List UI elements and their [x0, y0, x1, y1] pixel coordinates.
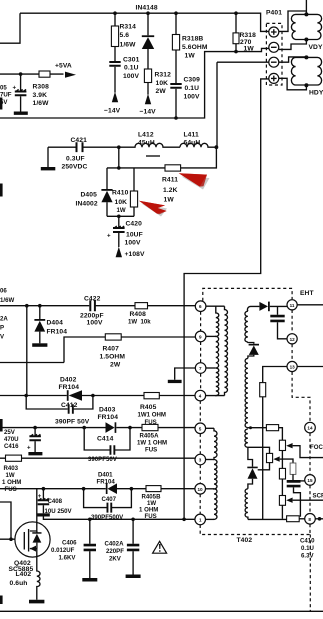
node R411 row / C420 column: [117, 166, 121, 170]
wire junction down to R411 row: [181, 147, 217, 168]
node C416: [33, 426, 37, 430]
svg-text:6.3V: 6.3V: [301, 553, 314, 560]
svg-text:0.3UF: 0.3UF: [66, 156, 85, 163]
resistor R308 3.9K 1/6W: [33, 71, 51, 107]
wire hot ground bus: [43, 517, 195, 520]
pin P401-4 (+): [269, 73, 279, 83]
svg-text:1W 1 OHM: 1W 1 OHM: [137, 440, 167, 447]
scan mark left edge 3: [0, 419, 3, 432]
svg-text:R411: R411: [162, 177, 178, 184]
diode secondary split upper: [248, 342, 259, 359]
pin 9: [195, 331, 206, 342]
node bus / C309: [174, 116, 178, 120]
node row/vertical drop: [25, 304, 29, 308]
wire chain pot3 to pin8 row: [281, 505, 283, 519]
svg-text:R403: R403: [4, 465, 19, 472]
svg-text:1.5OHM: 1.5OHM: [100, 354, 126, 361]
wire top bus: [20, 12, 236, 14]
node C407 left: [82, 487, 86, 491]
resistor R318 270 1W: [233, 13, 256, 52]
svg-text:05: 05: [0, 84, 7, 91]
wire HDY bottom to P401-4: [279, 78, 307, 90]
svg-text:5.6: 5.6: [120, 32, 130, 39]
svg-text:5: 5: [199, 426, 202, 431]
svg-text:P401: P401: [266, 10, 282, 17]
capacitor C420 10UF 100V: [107, 216, 143, 247]
wire pot2 bottom return: [258, 463, 270, 470]
wire divider top to chain: [279, 428, 283, 441]
ground D404: [32, 343, 47, 347]
svg-text:1W1 OHM: 1W1 OHM: [138, 412, 166, 419]
capacitor C422 2200pF 100V: [80, 296, 104, 327]
svg-text:−14V: −14V: [104, 108, 121, 115]
node C408: [42, 487, 46, 491]
svg-text:L411: L411: [184, 132, 199, 139]
transformer dashed pin chain right: [292, 310, 310, 611]
node top bus / R318B column: [174, 11, 178, 15]
red arrow pointing at R410: [139, 201, 167, 217]
svg-text:C414: C414: [97, 436, 114, 443]
svg-text:1W: 1W: [117, 207, 126, 214]
pin 15: [305, 475, 316, 486]
svg-text:10UF: 10UF: [126, 232, 143, 239]
wire C305 row: [0, 73, 64, 75]
resistor R408 1W 10k: [128, 303, 151, 326]
wire chain R to pot3: [281, 479, 283, 496]
svg-text:VDY: VDY: [309, 44, 323, 51]
svg-text:4: 4: [199, 394, 202, 399]
wire gate feed upper: [0, 502, 11, 539]
wire top-left vertical entry: [0, 13, 20, 43]
svg-text:2W: 2W: [110, 362, 121, 369]
resistor R405A 1W 1 OHM FUS: [137, 424, 167, 453]
pin 12: [287, 334, 297, 344]
svg-text:P: P: [0, 325, 4, 332]
svg-text:3: 3: [199, 458, 202, 463]
svg-text:FUS: FUS: [145, 447, 157, 454]
svg-text:06: 06: [0, 288, 7, 295]
svg-text:7: 7: [199, 366, 202, 371]
svg-text:R405A: R405A: [140, 433, 160, 440]
wire pin4 bottom winding bar: [206, 395, 225, 397]
diode D403 FR104: [98, 407, 119, 433]
ground pin7 branch: [168, 380, 182, 383]
svg-text:220PF: 220PF: [106, 548, 124, 555]
ground C416: [28, 452, 42, 455]
wire top bus to P401 pin1: [236, 13, 269, 31]
svg-text:100V: 100V: [125, 240, 141, 247]
svg-text:IN4002: IN4002: [76, 201, 98, 208]
capacitor C301 0.1U 100V: [109, 47, 139, 93]
wire main node down: [118, 147, 120, 168]
pin 7: [195, 363, 206, 374]
capacitor C309 0.1U 100V: [170, 50, 200, 118]
svg-text:C421: C421: [71, 137, 88, 144]
wire bus under top section: [0, 48, 269, 118]
svg-text:100V: 100V: [123, 73, 139, 80]
resistor R318B 5.6OHM 1W: [172, 13, 207, 59]
pin 6: [195, 301, 206, 312]
svg-text:250VDC: 250VDC: [62, 164, 88, 171]
node -14V arrow (R312 column): [140, 83, 157, 116]
secondary winding mid (EHT lower): [245, 311, 248, 342]
red arrow pointing at R411: [179, 173, 210, 189]
wire resistor to pin8: [299, 518, 305, 520]
svg-text:1W: 1W: [244, 46, 255, 53]
diode D401 FR104: [97, 471, 118, 494]
svg-text:10K: 10K: [115, 199, 128, 206]
svg-text:D405: D405: [81, 192, 98, 199]
wire pin6 top winding bar: [206, 305, 225, 307]
wire D402 row (to pin4): [0, 395, 195, 397]
wire D403 row (to pin5): [0, 427, 196, 429]
secondary winding bottom section: [245, 489, 248, 520]
svg-text:1: 1: [199, 517, 202, 522]
ground C408 (to hot bus): [37, 513, 49, 516]
svg-text:25V: 25V: [4, 429, 16, 436]
node C305: [19, 72, 23, 76]
capacitor C412 390PF 50V: [26, 396, 93, 426]
resistor R405 1W1 OHM FUS: [138, 393, 166, 427]
capacitor EHT filter: [270, 306, 284, 322]
svg-text:1.6KV: 1.6KV: [59, 555, 77, 562]
capacitor screen filter: [287, 480, 301, 517]
deflection yoke VDY: [291, 12, 323, 50]
svg-text:1.2K: 1.2K: [163, 187, 178, 194]
svg-text:1/6W: 1/6W: [33, 100, 50, 107]
wire vertical x217 down to L411 node: [216, 62, 218, 147]
svg-text:C406: C406: [62, 540, 77, 547]
secondary EHT winding top curl: [247, 306, 259, 311]
svg-text:2W: 2W: [156, 88, 167, 95]
node bus/P401-4 return: [182, 518, 186, 522]
svg-text:D403: D403: [99, 407, 116, 414]
svg-text:0.6uh: 0.6uh: [10, 580, 28, 587]
wire D401 row (to pin10): [0, 488, 195, 490]
svg-text:0.1U: 0.1U: [124, 65, 139, 72]
node R318 bottom: [234, 50, 238, 54]
pin 1: [195, 514, 206, 525]
primary winding upper outer (pin6 to pin4): [225, 306, 228, 395]
svg-text:1W 10k: 1W 10k: [128, 319, 151, 326]
svg-text:SCR: SCR: [313, 493, 323, 500]
svg-text:11: 11: [290, 303, 295, 308]
wire R403 row (to pin3): [0, 457, 195, 459]
svg-text:C412: C412: [61, 402, 78, 409]
inductor L412 45uH: [119, 132, 180, 157]
wire secondary bottom return bus: [248, 518, 287, 520]
capacitor C408 10U 250V: [38, 489, 73, 515]
svg-text:R410: R410: [112, 190, 129, 197]
capacitor C407 390PF500V: [84, 489, 132, 521]
svg-text:R407: R407: [103, 346, 120, 353]
scan mark left edge 4: [0, 596, 3, 605]
node D402 right: [91, 394, 95, 398]
svg-text:EHT: EHT: [300, 290, 314, 297]
svg-text:8: 8: [308, 517, 311, 522]
transformer dashed pin chain left: [199, 312, 201, 531]
node L411 / feed junction: [215, 145, 219, 149]
ground C406: [82, 578, 97, 582]
svg-text:C407: C407: [102, 496, 117, 503]
svg-text:FR104: FR104: [47, 329, 68, 336]
warning triangle: [153, 541, 167, 553]
svg-text:100V: 100V: [184, 94, 200, 101]
node C414 left: [82, 426, 86, 430]
svg-text:2200pF: 2200pF: [80, 313, 104, 320]
wire screen tap to pot2: [248, 447, 270, 453]
potentiometer screen (pot2): [267, 453, 283, 462]
wire R411 to R410/D405 node: [107, 167, 165, 169]
secondary winding screen section: [245, 429, 248, 447]
svg-text:R408: R408: [130, 311, 147, 318]
svg-text:5.6OHM: 5.6OHM: [182, 44, 208, 51]
capacitor C305 (electrolytic, label fragments at edge): [0, 74, 26, 111]
node loop bottom / C420: [117, 215, 121, 219]
primary winding lower (pins 5-3-10-1): [214, 428, 217, 519]
wire pin10 tap: [206, 488, 215, 490]
primary winding upper inner (pins 6-9-7-4): [216, 306, 219, 395]
wire Q402 drain to D401 row: [36, 489, 38, 531]
svg-text:3.9K: 3.9K: [33, 92, 48, 99]
wire R407 bottom leg to edge: [0, 362, 64, 364]
wire pin13 to edge: [297, 366, 323, 368]
svg-text:1W: 1W: [185, 53, 196, 60]
ground L402: [29, 600, 44, 604]
wire cap to pin15: [301, 480, 306, 482]
wire pin8 to edge: [315, 518, 323, 520]
resistor R407 1.5OHM 2W: [100, 334, 126, 369]
label C410 0.1U 6.3V: [300, 538, 315, 560]
node bus/C402A: [131, 518, 135, 522]
wire pin5 tap: [206, 427, 214, 429]
svg-text:13: 13: [290, 365, 296, 370]
svg-text:D402: D402: [60, 377, 77, 384]
svg-text:FOCU: FOCU: [310, 444, 323, 451]
diode D402 FR104: [59, 377, 83, 401]
capacitor C406 0.012UF 1.6KV: [51, 519, 96, 578]
transistor Q402 SC5885: [9, 522, 51, 578]
node bus/C406: [88, 518, 92, 522]
transformer dashed outline bottom: [200, 531, 310, 535]
resistor R312 10K 2W: [144, 69, 171, 95]
node +108V arrow: [116, 247, 145, 258]
ground C305: [14, 112, 28, 115]
svg-text:R308: R308: [33, 83, 50, 90]
svg-text:HDY: HDY: [309, 90, 323, 97]
wire VDY top stub to image edge: [305, 0, 307, 14]
inductor L402 0.6uh: [10, 557, 41, 600]
svg-text:390PF50V: 390PF50V: [88, 456, 118, 463]
potentiometer screen-out (pot3): [279, 496, 323, 506]
potentiometer focus (pot1): [279, 440, 323, 457]
wire pin12 to EHT cap: [278, 322, 288, 339]
svg-text:0.1U: 0.1U: [185, 85, 200, 92]
capacitor C421 0.3UF 250VDC: [48, 137, 119, 171]
svg-text:R312: R312: [155, 72, 172, 79]
svg-text:1/6W: 1/6W: [120, 42, 137, 49]
resistor R410 10K 1W: [112, 168, 138, 216]
wire vertical feed to D402 row: [26, 306, 28, 396]
wire P401-4 long run to transformer frame: [184, 79, 269, 519]
svg-text:390PF 50V: 390PF 50V: [55, 419, 90, 426]
node focus tap: [249, 426, 252, 429]
svg-text:C422: C422: [84, 296, 101, 303]
wire P401-3 to HDY top: [279, 57, 307, 62]
pin 3: [195, 454, 206, 465]
svg-text:C416: C416: [4, 443, 19, 450]
pin 11: [287, 300, 297, 310]
diode IN4148: [136, 5, 158, 70]
wire EHT diode to pin11: [270, 305, 287, 307]
svg-text:+: +: [38, 493, 42, 500]
svg-text:R405: R405: [140, 404, 157, 411]
svg-text:+: +: [13, 85, 17, 92]
node top bus / R318 column: [234, 11, 238, 15]
node top bus / R314 column: [113, 11, 117, 15]
wire P401-1 to VDY top: [279, 11, 307, 31]
wire pin11 to edge: [297, 304, 323, 306]
svg-text:1/6W: 1/6W: [0, 297, 14, 304]
svg-text:12: 12: [290, 337, 296, 342]
ground C421: [41, 167, 56, 170]
svg-text:C402A: C402A: [105, 541, 125, 548]
diode D405 IN4002: [76, 168, 113, 216]
wire row B+ (C422/R408 to pin6): [0, 305, 196, 307]
connector P401 dashed outline: [266, 10, 282, 86]
svg-text:R314: R314: [120, 24, 137, 31]
svg-text:100V: 100V: [87, 320, 103, 327]
pin 8: [305, 514, 316, 525]
node D402 left: [24, 394, 28, 398]
resistor R314 5.6 1/6W: [111, 13, 136, 48]
wire R407 row to pin9: [64, 337, 196, 363]
svg-text:FR104: FR104: [59, 384, 80, 391]
svg-text:T402: T402: [237, 537, 253, 544]
svg-text:+: +: [107, 233, 111, 240]
svg-text:1 OHM: 1 OHM: [2, 479, 21, 486]
scan mark left edge 1: [0, 98, 2, 110]
ground C402A: [126, 575, 141, 579]
svg-text:0.1U: 0.1U: [301, 545, 314, 552]
svg-text:+5VA: +5VA: [55, 63, 72, 70]
svg-text:FR104: FR104: [98, 414, 119, 421]
capacitor C402A 220PF 2KV: [105, 519, 140, 574]
svg-text:6: 6: [199, 304, 202, 309]
node row/D404: [38, 304, 42, 308]
wire pin1 tap: [206, 518, 215, 520]
svg-text:14: 14: [307, 426, 313, 431]
svg-text:C301: C301: [123, 57, 140, 64]
svg-text:+: +: [27, 445, 31, 452]
svg-text:2KV: 2KV: [109, 556, 122, 563]
diode D404 FR104: [34, 306, 67, 344]
wire pin13 left branch: [263, 367, 287, 383]
svg-text:10K: 10K: [156, 80, 169, 87]
diode EHT rectifier: [259, 302, 269, 312]
wire chain pot1 to R: [281, 451, 283, 469]
svg-text:10: 10: [198, 487, 204, 492]
svg-text:IN4148: IN4148: [136, 5, 158, 12]
wire pin7 tap: [206, 367, 216, 369]
resistor pin8 series: [287, 516, 300, 522]
capacitor C416 470U 25V: [4, 428, 41, 452]
node C407 right: [130, 487, 134, 491]
pin 10: [195, 484, 206, 495]
diode secondary split lower: [247, 447, 257, 489]
svg-text:470U: 470U: [4, 436, 19, 443]
capacitor C414 390PF50V: [84, 428, 130, 463]
node gate: [9, 537, 13, 541]
wire VDY bottom to P401-2: [279, 40, 307, 50]
svg-text:+108V: +108V: [125, 251, 145, 258]
inductor L411 64uH: [180, 132, 216, 148]
deflection yoke HDY: [291, 55, 323, 96]
resistor bleeder (pin13 branch): [260, 383, 266, 520]
svg-text:C408: C408: [48, 498, 63, 505]
svg-text:C309: C309: [184, 77, 201, 84]
wire C421 left leg: [47, 147, 49, 167]
svg-text:9: 9: [199, 334, 202, 339]
pin 4: [195, 390, 206, 401]
secondary winding lower-mid: [245, 358, 248, 427]
pin 5: [195, 423, 206, 434]
svg-text:R318B: R318B: [182, 36, 203, 43]
resistor chain mid: [279, 468, 285, 479]
scan mark left edge 2: [0, 184, 3, 197]
transformer T402 dashed outline top (pin6 to pin11): [203, 288, 292, 300]
node C414 right: [128, 426, 132, 430]
node -14V arrow (C301 column): [104, 92, 121, 115]
pin 14: [305, 422, 316, 433]
resistor R403 1W 1 OHM FUS: [2, 455, 22, 493]
pin P401-2 (-): [269, 42, 279, 52]
svg-text:0.012UF: 0.012UF: [51, 547, 75, 554]
node +5VA output arrow: [55, 63, 76, 78]
node pin8 output: [318, 517, 322, 521]
resistor R411 1.2K 1W: [162, 165, 181, 204]
svg-text:−14V: −14V: [140, 109, 157, 116]
wire focus tap to divider: [248, 427, 267, 429]
resistor G2 feed (gray): [282, 459, 296, 480]
wire bottom border: [0, 610, 323, 612]
pin P401-3 (-): [269, 57, 279, 67]
pin P401-1 (+): [269, 27, 279, 37]
wire gate row: [0, 538, 24, 540]
wire pin7 ground branch: [175, 368, 196, 380]
node top bus / D-IN4148 column: [146, 11, 150, 15]
wire bottom of D405/R410 loop: [107, 215, 134, 217]
svg-text:L402: L402: [16, 571, 32, 578]
svg-text:D401: D401: [98, 471, 113, 478]
svg-text:1W: 1W: [6, 472, 15, 479]
svg-text:D404: D404: [47, 320, 64, 327]
svg-text:C410: C410: [300, 538, 315, 545]
svg-text:2A: 2A: [0, 316, 8, 323]
node main line / C421 branch: [117, 145, 121, 149]
resistor R405B 1W 1 OHM FUS: [139, 486, 161, 520]
wire P401-3 to vertical feed: [217, 61, 269, 63]
wire pin3 tap: [206, 459, 214, 461]
resistor divider top (focus tap): [266, 425, 278, 431]
svg-text:C420: C420: [126, 221, 143, 228]
wire pin9 tap: [206, 335, 216, 337]
pin 13: [287, 361, 297, 371]
svg-text:L412: L412: [138, 132, 154, 139]
svg-text:1W: 1W: [164, 197, 175, 204]
svg-text:15: 15: [307, 478, 313, 483]
